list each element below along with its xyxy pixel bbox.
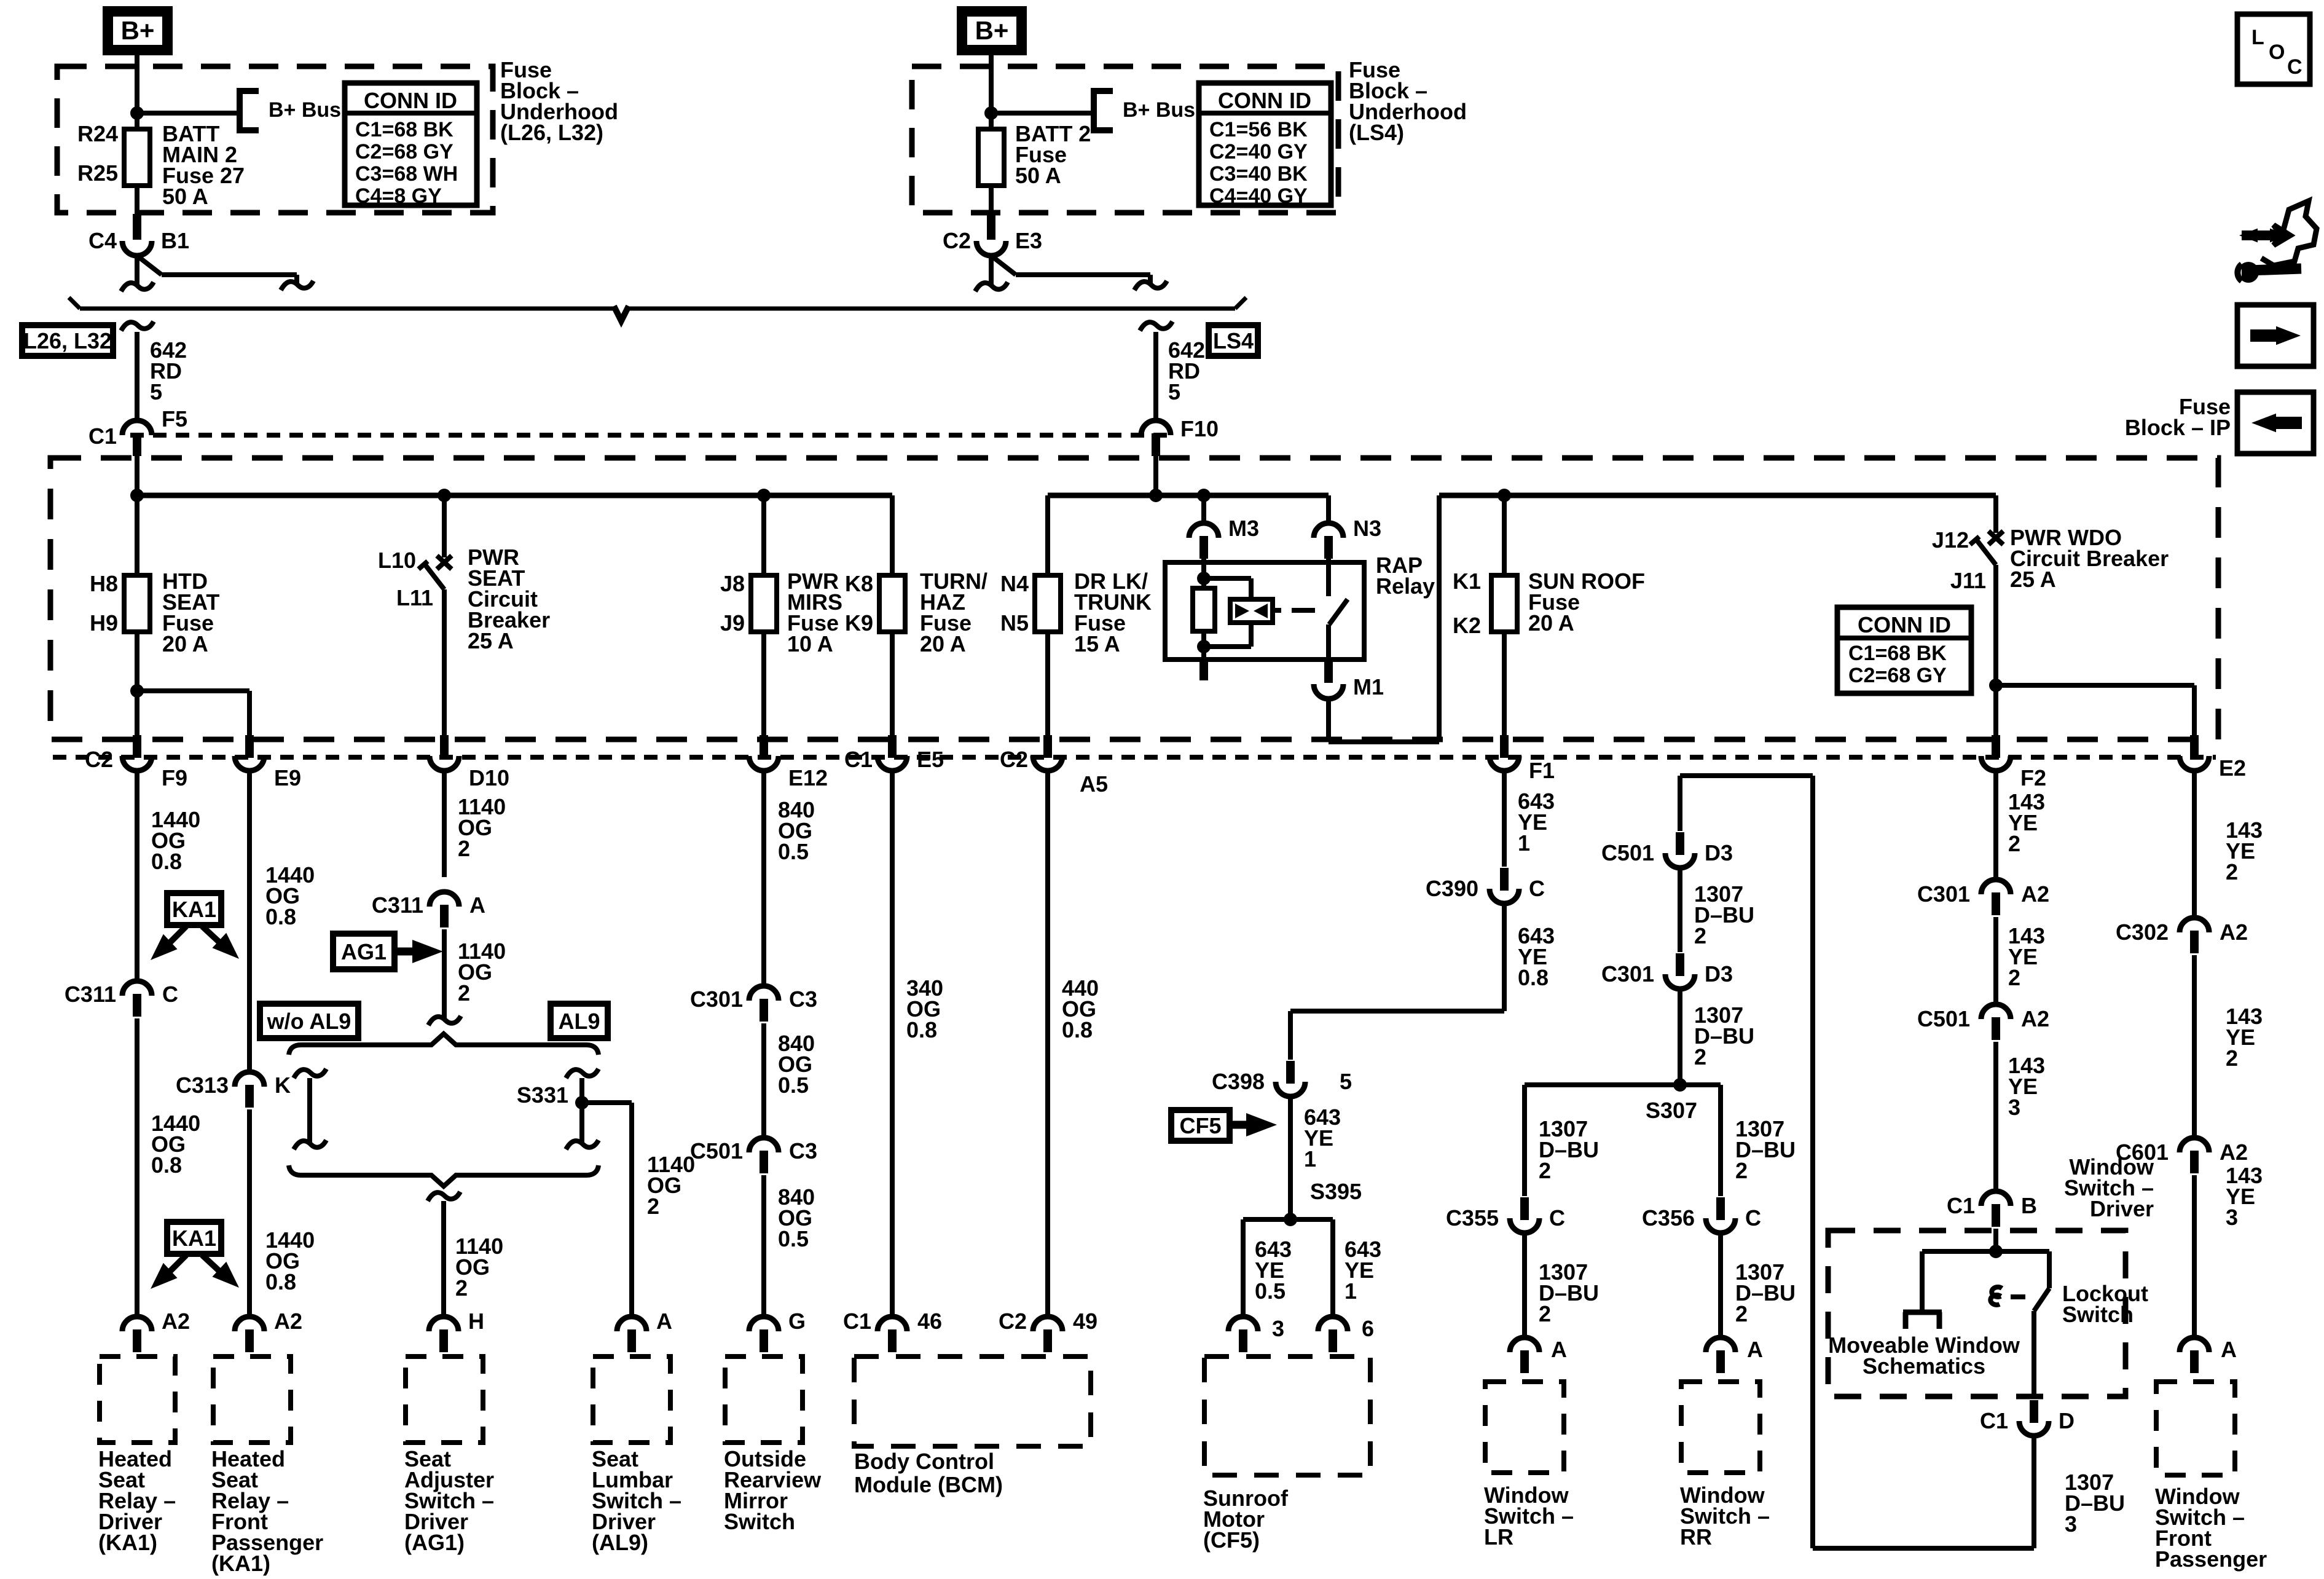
- svg-text:Block – IP: Block – IP: [2125, 415, 2231, 440]
- label K2: [1453, 613, 1481, 638]
- connector M3: [1189, 516, 1259, 559]
- svg-text:2: 2: [1539, 1158, 1551, 1183]
- label 143 YE 3 (driver): [2008, 1053, 2045, 1120]
- svg-text:0.5: 0.5: [1255, 1278, 1286, 1304]
- Outside Rearview Mirror Switch box: [725, 1357, 803, 1443]
- CONN ID table (underhood right): [1199, 83, 1331, 208]
- svg-text:H9: H9: [90, 610, 118, 636]
- connector C1/E5: [844, 735, 944, 772]
- svg-text:A2: A2: [2220, 919, 2248, 945]
- CONN ID table (underhood left): [345, 83, 477, 208]
- Heated Seat Relay - Driver box: [100, 1357, 175, 1443]
- svg-text:0.8: 0.8: [1062, 1017, 1093, 1042]
- label N5: [1000, 610, 1029, 636]
- label HTD SEAT Fuse 20 A: [162, 569, 219, 656]
- next-page arrow box: [2237, 305, 2314, 366]
- brace lower: [289, 1165, 599, 1186]
- wire M1 output loop: [1329, 495, 1439, 742]
- wire C302/A2 down: [2192, 955, 2197, 1138]
- svg-text:E5: E5: [917, 747, 944, 772]
- connector C301/D3: [1601, 953, 1733, 989]
- svg-text:Passenger: Passenger: [2155, 1546, 2267, 1572]
- svg-text:M1: M1: [1353, 674, 1384, 699]
- label Heated Seat Relay - Front Passenger (KA1): [211, 1446, 323, 1576]
- svg-text:M3: M3: [1228, 516, 1259, 541]
- svg-text:0.5: 0.5: [778, 1073, 809, 1098]
- fuse DR LK/TRUNK 15 A (N4/N5): [1035, 575, 1061, 735]
- label H9: [90, 610, 118, 636]
- svg-text:C311: C311: [372, 892, 423, 918]
- svg-text:C2: C2: [999, 1309, 1027, 1334]
- IP bus segment A: [137, 493, 892, 498]
- svg-text:C501: C501: [690, 1138, 743, 1164]
- svg-text:(AL9): (AL9): [592, 1530, 648, 1555]
- svg-text:C1: C1: [844, 747, 873, 772]
- svg-text:L10: L10: [378, 548, 416, 573]
- connector C1/46: [843, 1309, 942, 1352]
- wire C601/A2 down: [2192, 1175, 2197, 1337]
- svg-text:Schematics: Schematics: [1863, 1353, 1985, 1379]
- B+ Bus bracket (right): [1094, 91, 1113, 130]
- label N4: [1000, 571, 1029, 596]
- svg-text:2: 2: [458, 980, 470, 1006]
- label PWR WDO Circuit Breaker 25 A: [2010, 525, 2169, 592]
- svg-text:C301: C301: [1917, 881, 1970, 907]
- svg-text:Switch: Switch: [2062, 1302, 2134, 1327]
- label TURN/HAZ Fuse 20 A: [920, 569, 987, 656]
- Fuse Block - Underhood (L26,L32) dashed box: [57, 66, 493, 213]
- tag box CF5: [1171, 1110, 1230, 1141]
- junction dot F10 feed: [1149, 489, 1163, 502]
- wire bus corner to DR LK/TRUNK fuse: [1045, 495, 1050, 575]
- connector C601/A2: [2116, 1138, 2248, 1173]
- svg-text:5: 5: [1340, 1069, 1352, 1094]
- RAP relay suppressor diode loop: [1204, 578, 1281, 647]
- label L10: [378, 548, 416, 573]
- svg-text:KA1: KA1: [172, 1226, 216, 1251]
- brace upper: [289, 1034, 599, 1055]
- svg-text:C390: C390: [1426, 876, 1478, 901]
- circuit breaker PWR WDO 25 A (J12/J11): [1970, 531, 2003, 735]
- svg-text:Body Control: Body Control: [854, 1449, 994, 1474]
- wire bus corner to PWR WDO breaker: [1993, 495, 1998, 533]
- svg-text:3: 3: [2008, 1095, 2020, 1120]
- svg-text:J8: J8: [720, 571, 745, 596]
- prev-page arrow box: [2237, 392, 2314, 454]
- junction dot E9 branch: [130, 684, 144, 698]
- svg-text:D: D: [2059, 1408, 2075, 1433]
- label Heated Seat Relay - Driver (KA1): [98, 1446, 176, 1555]
- wire C311/A down with break: [428, 929, 461, 1025]
- wire bus to RAP relay M3: [1201, 495, 1206, 523]
- KA1 arrows (upper): [151, 926, 239, 960]
- fuse HTD SEAT 20 A (H8/H9): [124, 575, 150, 735]
- svg-text:Driver: Driver: [2090, 1196, 2154, 1221]
- wire C2/E3 branch right with break: [991, 256, 1167, 290]
- svg-text:B+ Bus: B+ Bus: [1123, 98, 1195, 122]
- svg-text:J11: J11: [1950, 568, 1986, 593]
- label 143 YE 2 (E2): [2226, 817, 2263, 884]
- wire C390 to C398: [1290, 904, 1504, 1060]
- svg-text:49: 49: [1073, 1309, 1097, 1334]
- label R24: [77, 121, 118, 146]
- wire lockout return: [1680, 776, 1813, 1548]
- wire S395 split: [1243, 1219, 1333, 1317]
- Seat Adjuster Switch box: [406, 1357, 483, 1443]
- connector F10: [1141, 416, 1219, 456]
- fuse TURN/HAZ 20 A (K8/K9): [879, 575, 905, 735]
- wire bus to SUN ROOF fuse: [1502, 495, 1507, 575]
- svg-text:0.8: 0.8: [265, 904, 296, 929]
- svg-text:46: 46: [917, 1309, 942, 1334]
- svg-text:A: A: [1551, 1337, 1567, 1362]
- splice S307: [1646, 1078, 1697, 1123]
- svg-text:2: 2: [2226, 1045, 2238, 1071]
- svg-text:K: K: [275, 1073, 291, 1098]
- wire below brace with break: [428, 1192, 460, 1317]
- wire bus corner to TURN/HAZ fuse: [890, 495, 895, 575]
- svg-text:C: C: [162, 982, 178, 1007]
- connector C311/C: [65, 981, 178, 1017]
- label Fuse Block - Underhood (LS4): [1349, 57, 1467, 145]
- Fuse Block - Underhood (LS4) dashed box: [912, 66, 1338, 213]
- svg-text:Relay: Relay: [1376, 573, 1435, 599]
- svg-text:AG1: AG1: [341, 939, 387, 964]
- tag box AG1: [333, 934, 395, 969]
- junction dot HTD seat feed: [130, 489, 144, 502]
- service info icon: [2237, 201, 2317, 283]
- svg-text:C4=40 GY: C4=40 GY: [1209, 184, 1308, 208]
- svg-text:C1=56 BK: C1=56 BK: [1209, 118, 1308, 141]
- RAP relay box: [1165, 562, 1364, 660]
- tag box KA1 (upper): [167, 893, 221, 925]
- svg-text:C1=68 BK: C1=68 BK: [355, 118, 453, 141]
- connector F2: [1981, 735, 2046, 790]
- connector A (window switch LR): [1510, 1337, 1567, 1373]
- wire to B+ Bus (right): [991, 111, 1091, 116]
- wire S307 branches: [1525, 1085, 1721, 1196]
- svg-text:F9: F9: [162, 765, 187, 790]
- tag box w/o AL9: [260, 1004, 358, 1038]
- label S331: [517, 1082, 568, 1108]
- svg-text:B+: B+: [121, 16, 155, 45]
- svg-text:C2: C2: [1000, 747, 1028, 772]
- tag box L26, L32: [22, 325, 113, 356]
- wire bus to HTD SEAT fuse: [135, 495, 139, 575]
- wire F5 into IP fuse block: [135, 456, 139, 495]
- svg-text:A: A: [469, 892, 485, 918]
- connector C1/B: [1947, 1191, 2037, 1227]
- svg-text:B: B: [2021, 1193, 2037, 1218]
- label 1140 OG 2 (col C lower): [455, 1234, 503, 1301]
- svg-text:Module (BCM): Module (BCM): [854, 1472, 1003, 1497]
- tag box LS4: [1209, 325, 1258, 356]
- svg-text:25 A: 25 A: [2010, 567, 2056, 592]
- svg-text:L26, L32: L26, L32: [23, 328, 112, 353]
- Heated Seat Relay - Front Passenger box: [213, 1357, 291, 1443]
- svg-text:2: 2: [1694, 923, 1706, 948]
- label J8: [720, 571, 745, 596]
- svg-text:2: 2: [2226, 859, 2238, 884]
- wire C355 down: [1522, 1233, 1527, 1337]
- label Lockout Switch: [2062, 1281, 2148, 1327]
- connector E9: [235, 735, 301, 790]
- label K1: [1453, 569, 1481, 594]
- label 1140 OG 2 (col C upper): [458, 794, 506, 861]
- svg-text:CONN ID: CONN ID: [364, 88, 457, 113]
- svg-text:C356: C356: [1642, 1205, 1695, 1231]
- svg-text:6: 6: [1362, 1316, 1374, 1341]
- svg-text:D3: D3: [1705, 961, 1733, 986]
- connector A2 (front passenger relay): [235, 1309, 302, 1352]
- connector F1: [1490, 735, 1555, 783]
- label S395: [1310, 1179, 1362, 1204]
- label 1140 OG 2 (AL9 branch): [647, 1152, 695, 1219]
- connector A (window switch RR): [1706, 1337, 1763, 1373]
- wire 642 RD 5 (left) with break: [121, 321, 154, 420]
- label K9: [845, 610, 873, 636]
- svg-text:(CF5): (CF5): [1203, 1527, 1260, 1553]
- svg-text:10 A: 10 A: [787, 631, 833, 656]
- junction dot RAP coil feed: [1197, 489, 1211, 502]
- svg-text:2: 2: [1694, 1044, 1706, 1069]
- wire D10 down: [442, 771, 447, 877]
- connector A (front passenger): [2180, 1337, 2237, 1373]
- power terminal B+ (right): [957, 6, 1027, 55]
- svg-text:2: 2: [1735, 1301, 1748, 1326]
- label 643 YE 1 (CF5): [1304, 1105, 1341, 1171]
- svg-text:2: 2: [455, 1275, 468, 1301]
- wire F9 down: [135, 771, 139, 981]
- svg-text:F10: F10: [1180, 416, 1219, 441]
- wire F2 down: [1993, 771, 1998, 880]
- svg-text:K9: K9: [845, 610, 873, 636]
- svg-text:1: 1: [1345, 1278, 1357, 1304]
- label 1440 OG 0.8 (col B upper): [265, 862, 315, 929]
- junction dot E2 branch: [1989, 679, 2003, 692]
- CF5 arrow: [1230, 1113, 1277, 1136]
- svg-text:A2: A2: [274, 1309, 302, 1334]
- label 440 OG 0.8: [1062, 975, 1099, 1042]
- svg-text:F2: F2: [2020, 765, 2046, 790]
- svg-text:5: 5: [150, 379, 162, 404]
- svg-text:0.8: 0.8: [151, 1152, 182, 1178]
- svg-text:H8: H8: [90, 571, 118, 596]
- svg-text:3: 3: [2065, 1511, 2077, 1537]
- svg-text:C: C: [1745, 1205, 1761, 1231]
- tag box AL9: [551, 1004, 608, 1038]
- svg-text:C313: C313: [176, 1073, 229, 1098]
- label BATT MAIN 2 Fuse 27 50 A: [162, 121, 245, 209]
- svg-text:K1: K1: [1453, 569, 1481, 594]
- wire C398 to S395: [1288, 1097, 1293, 1219]
- connector row dotted line (top): [130, 433, 1169, 438]
- option stub AL9 with S331: [566, 1069, 599, 1149]
- svg-text:C3: C3: [789, 986, 817, 1012]
- label Window Switch - Driver: [2064, 1154, 2154, 1221]
- option stub w/o AL9: [294, 1069, 326, 1149]
- LOC reference box: [2237, 14, 2310, 84]
- junction dot B+ bus tap (right): [984, 106, 998, 120]
- svg-text:CONN ID: CONN ID: [1218, 88, 1311, 113]
- connector C501/D3: [1601, 832, 1733, 868]
- connector E2: [2180, 735, 2246, 781]
- connector 3: [1228, 1316, 1284, 1352]
- label 643 YE 0.8: [1518, 923, 1555, 990]
- svg-text:A2: A2: [2021, 881, 2049, 907]
- wire F10 into IP fuse block: [1153, 456, 1158, 495]
- svg-text:0.5: 0.5: [778, 839, 809, 864]
- svg-text:C3: C3: [789, 1138, 817, 1164]
- IP bus segment C: [1439, 493, 1996, 498]
- svg-text:C2=40 GY: C2=40 GY: [1209, 140, 1308, 163]
- svg-text:C501: C501: [1917, 1006, 1970, 1031]
- label J12: [1932, 527, 1969, 553]
- svg-text:2: 2: [2008, 965, 2020, 990]
- svg-text:B1: B1: [161, 228, 189, 253]
- label 643 YE 1 (F1): [1518, 789, 1555, 856]
- Fuse Block - IP dashed box: [50, 458, 2218, 739]
- splice bus line: [69, 297, 1246, 321]
- svg-text:C1: C1: [88, 423, 117, 449]
- label 1307 D-BU 2 (C355 below): [1539, 1259, 1599, 1326]
- svg-text:C1=68 BK: C1=68 BK: [1848, 642, 1947, 665]
- svg-text:S395: S395: [1310, 1179, 1362, 1204]
- svg-text:C601: C601: [2116, 1140, 2169, 1165]
- svg-text:N5: N5: [1000, 610, 1029, 636]
- svg-text:(LS4): (LS4): [1349, 120, 1404, 145]
- connector 6: [1318, 1316, 1374, 1352]
- RAP relay switch: [1329, 559, 1348, 660]
- svg-text:S307: S307: [1646, 1098, 1697, 1123]
- svg-text:F5: F5: [162, 406, 187, 431]
- wire C301/D3 to S307: [1678, 989, 1682, 1085]
- label 1440 OG 0.8 (col B lower): [265, 1227, 315, 1294]
- svg-text:R25: R25: [77, 160, 118, 186]
- svg-text:A: A: [1747, 1337, 1763, 1362]
- connector C390/C: [1426, 868, 1545, 904]
- connector C2/F9: [85, 735, 187, 790]
- connector G: [749, 1309, 806, 1352]
- label Sunroof Motor (CF5): [1203, 1486, 1289, 1553]
- fuse BATT 2 50 A: [978, 129, 1004, 214]
- junction dot PWR SEAT feed: [438, 489, 451, 502]
- connector C2/E3: [943, 214, 1042, 256]
- connector D10: [430, 735, 509, 790]
- connector C1/F5: [88, 406, 187, 456]
- wire C301/C3 down: [761, 1023, 766, 1138]
- label 143 YE 2 (mid passenger): [2226, 1004, 2263, 1071]
- wire B+ to BATT 2 fuse: [989, 55, 994, 129]
- label 1307 D-BU 2 (C355 above): [1539, 1116, 1599, 1183]
- svg-text:C2=68 GY: C2=68 GY: [355, 140, 453, 163]
- connector C4/B1: [88, 214, 189, 256]
- connector C311/A: [372, 892, 485, 927]
- label 1440 OG 0.8 (col A upper): [151, 807, 200, 874]
- splice S395: [1284, 1213, 1297, 1226]
- svg-text:L11: L11: [396, 585, 433, 610]
- svg-text:K2: K2: [1453, 613, 1481, 638]
- svg-text:C3=68 WH: C3=68 WH: [355, 162, 458, 186]
- svg-text:Switch: Switch: [724, 1509, 795, 1534]
- svg-text:0.8: 0.8: [151, 849, 182, 874]
- svg-text:J9: J9: [720, 610, 745, 636]
- svg-text:2: 2: [2008, 831, 2020, 856]
- lockout actuator: [1990, 1287, 2025, 1305]
- label 840 OG 0.5 (upper): [778, 797, 815, 864]
- connector M1: [1314, 660, 1384, 699]
- label 1140 OG 2 (col C mid): [458, 939, 506, 1006]
- svg-text:A2: A2: [2021, 1006, 2049, 1031]
- svg-text:CF5: CF5: [1179, 1113, 1221, 1138]
- Moveable Window Schematics dashed box: [1828, 1231, 2126, 1396]
- label B+ Bus (left): [269, 98, 341, 122]
- label Moveable Window Schematics: [1828, 1333, 2020, 1379]
- label DR LK/TRUNK Fuse 15 A: [1074, 569, 1152, 656]
- connector C501/A2: [1917, 1004, 2049, 1040]
- label 1307 D-BU 2 (to S307): [1694, 1002, 1754, 1069]
- svg-text:E3: E3: [1015, 228, 1042, 253]
- wire C1/D to lockout return: [1813, 1436, 2034, 1548]
- svg-text:E12: E12: [788, 765, 828, 790]
- wire E5 down: [890, 771, 895, 1317]
- label K8: [845, 571, 873, 596]
- wire C356 down: [1718, 1233, 1723, 1337]
- svg-text:N3: N3: [1353, 516, 1381, 541]
- label 1307 D-BU 2 (C356 below): [1735, 1259, 1796, 1326]
- label 1307 D-BU 2 (C356 above): [1735, 1116, 1796, 1183]
- connector C302/A2: [2116, 918, 2248, 953]
- label Window Switch - RR: [1680, 1483, 1770, 1549]
- svg-text:C1: C1: [843, 1309, 871, 1334]
- svg-text:A2: A2: [2220, 1140, 2248, 1165]
- svg-text:C1: C1: [1980, 1408, 2008, 1433]
- svg-text:3: 3: [2226, 1205, 2238, 1230]
- label SUN ROOF Fuse 20 A: [1528, 569, 1645, 636]
- connector C2/A5: [1000, 735, 1108, 797]
- Body Control Module box: [854, 1357, 1091, 1446]
- svg-text:2: 2: [1735, 1158, 1748, 1183]
- junction dot lockout: [1989, 1245, 2003, 1258]
- wire A5 down: [1045, 771, 1050, 1317]
- connector C313/K: [176, 1072, 291, 1108]
- label R25: [77, 160, 118, 186]
- svg-text:50 A: 50 A: [1015, 163, 1061, 188]
- wire C501/D3 down: [1678, 868, 1682, 952]
- KA1 arrows (lower): [151, 1255, 239, 1289]
- svg-text:F1: F1: [1529, 758, 1555, 783]
- label 642 RD 5 (left): [150, 337, 187, 404]
- svg-text:RR: RR: [1680, 1524, 1712, 1549]
- wire F1 down: [1502, 771, 1507, 867]
- label 1440 OG 0.8 (col A lower): [151, 1111, 200, 1178]
- svg-text:0.8: 0.8: [906, 1017, 937, 1042]
- svg-text:2: 2: [647, 1194, 659, 1219]
- label Outside Rearview Mirror Switch: [724, 1446, 822, 1534]
- wire bus corner to RAP relay N3: [1326, 495, 1331, 523]
- wire B+ to BATT MAIN 2 fuse: [135, 55, 139, 129]
- circuit breaker PWR SEAT 25 A (L10/L11): [418, 556, 452, 735]
- svg-text:15 A: 15 A: [1074, 631, 1120, 656]
- svg-text:20 A: 20 A: [162, 631, 208, 656]
- svg-text:2: 2: [458, 836, 470, 861]
- wire E9 down: [247, 771, 252, 1072]
- svg-text:LR: LR: [1484, 1524, 1513, 1549]
- label 642 RD 5 (right): [1168, 337, 1205, 404]
- svg-text:C4: C4: [88, 228, 117, 253]
- connector H: [429, 1309, 484, 1352]
- Window Switch LR box: [1485, 1382, 1564, 1473]
